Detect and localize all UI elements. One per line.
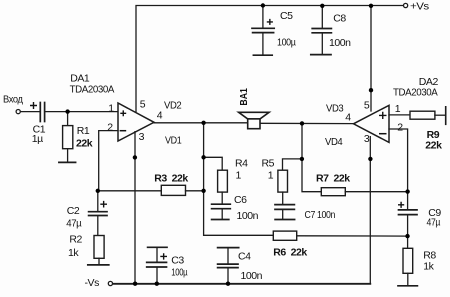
svg-text:100n: 100n: [329, 37, 351, 49]
svg-text:22k: 22k: [425, 139, 442, 151]
svg-text:3: 3: [364, 133, 370, 145]
svg-text:1: 1: [236, 170, 242, 182]
svg-text:TDA2030A: TDA2030A: [70, 83, 115, 95]
svg-text:C3: C3: [171, 255, 184, 267]
svg-text:5: 5: [364, 99, 370, 111]
svg-text:100µ: 100µ: [277, 37, 296, 49]
svg-text:C2: C2: [67, 205, 80, 217]
svg-text:Вход: Вход: [3, 94, 23, 106]
svg-text:R6 22k: R6 22k: [273, 247, 307, 259]
svg-text:C4: C4: [238, 251, 251, 263]
svg-text:1k: 1k: [423, 261, 434, 273]
svg-text:R5: R5: [262, 158, 275, 170]
svg-text:47µ: 47µ: [427, 216, 441, 228]
svg-text:4: 4: [157, 109, 163, 121]
svg-text:R3 22k: R3 22k: [154, 172, 188, 184]
svg-text:R4: R4: [235, 158, 248, 170]
svg-text:4: 4: [345, 111, 351, 123]
svg-text:VD1: VD1: [165, 135, 182, 147]
svg-text:C6: C6: [234, 194, 247, 206]
svg-text:-Vs: -Vs: [85, 277, 100, 289]
svg-text:R7 22k: R7 22k: [316, 173, 350, 185]
svg-text:100µ: 100µ: [171, 266, 187, 278]
svg-text:VD4: VD4: [325, 136, 343, 148]
svg-text:C7 100n: C7 100n: [305, 209, 336, 221]
svg-text:R2: R2: [69, 234, 82, 246]
svg-text:100n: 100n: [237, 210, 259, 222]
svg-text:100n: 100n: [241, 270, 263, 282]
svg-text:+Vs: +Vs: [410, 1, 429, 13]
svg-text:2: 2: [397, 122, 403, 134]
svg-text:C8: C8: [333, 12, 346, 24]
svg-text:1k: 1k: [68, 247, 79, 259]
svg-text:1: 1: [395, 103, 401, 115]
svg-text:1µ: 1µ: [32, 133, 43, 145]
svg-text:VD3: VD3: [326, 102, 344, 114]
svg-text:1: 1: [108, 102, 114, 114]
svg-text:47µ: 47µ: [66, 217, 81, 229]
svg-text:R1: R1: [77, 125, 90, 137]
svg-text:VD2: VD2: [164, 99, 182, 111]
svg-text:BA1: BA1: [238, 88, 250, 106]
svg-text:5: 5: [140, 99, 146, 111]
svg-text:3: 3: [139, 131, 145, 143]
svg-text:C5: C5: [280, 10, 293, 22]
svg-text:22k: 22k: [76, 138, 93, 150]
svg-text:2: 2: [107, 122, 113, 134]
svg-text:TDA2030A: TDA2030A: [393, 87, 438, 99]
svg-text:1: 1: [268, 170, 274, 182]
